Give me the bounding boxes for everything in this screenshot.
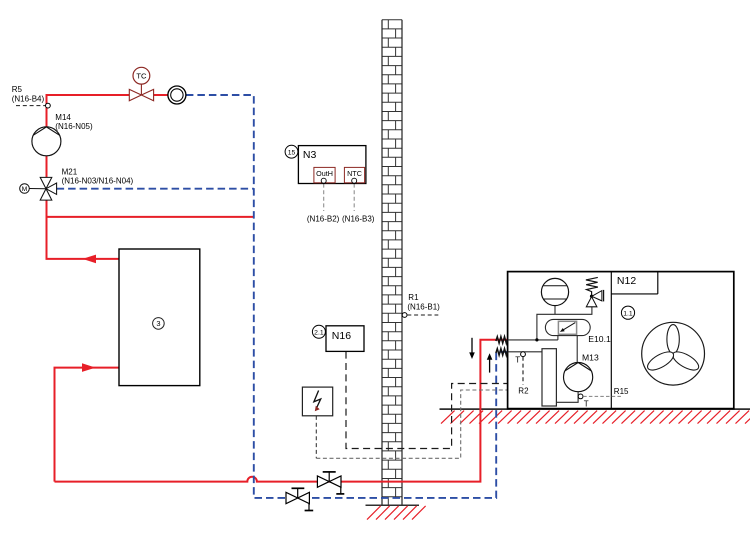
- terminal circle (N16-B2): [321, 178, 326, 183]
- pressure gauge (double circle): [168, 86, 186, 104]
- 3-way mixing valve M21: [40, 177, 56, 200]
- internal pipes of outdoor unit: [508, 306, 592, 403]
- expansion vessel: [541, 278, 568, 305]
- sensor T/R15 below pump: [578, 394, 583, 399]
- divider line: [610, 272, 612, 409]
- wire: N3 sensor drop lines (gray dash): [324, 184, 355, 211]
- svg-text:(N16-B2): (N16-B2): [307, 214, 340, 223]
- svg-text:(N16-B4): (N16-B4): [12, 95, 45, 104]
- wire: blue dashed pipe from gauge, right riser, bottom run into outdoor unit: [57, 95, 508, 498]
- shutoff valve on red bottom pipe: [317, 476, 341, 487]
- pipe junction node: [535, 338, 538, 341]
- position circle 1.1: [621, 306, 634, 319]
- svg-text:N12: N12: [617, 275, 636, 287]
- svg-text:NTC: NTC: [347, 169, 362, 178]
- wall-pass zigzag on blue pipe: [496, 349, 508, 356]
- sensor R5 connection circle on riser: [46, 103, 51, 108]
- position circle 2.1: [312, 325, 325, 338]
- wire: N16 control line to outdoor unit (black long dash): [346, 352, 508, 449]
- svg-text:R15: R15: [614, 387, 629, 396]
- sensor T/R2: [521, 352, 526, 357]
- terminal NTC: [344, 167, 364, 182]
- terminal circle (N16-B3): [352, 178, 357, 183]
- svg-text:M13: M13: [582, 352, 599, 362]
- svg-text:T: T: [584, 400, 589, 409]
- controller N16: [326, 326, 364, 352]
- svg-text:2.1: 2.1: [314, 329, 324, 336]
- svg-text:M: M: [22, 186, 28, 193]
- terminal OutH: [314, 167, 335, 182]
- svg-text:M14: M14: [55, 113, 71, 122]
- svg-text:R1: R1: [408, 293, 419, 302]
- svg-text:15: 15: [288, 149, 296, 156]
- svg-text:(N16-N03/N16-N04): (N16-N03/N16-N04): [62, 177, 134, 186]
- heat exchanger (tall rect): [542, 349, 556, 406]
- svg-text:N3: N3: [303, 149, 317, 161]
- flow direction arrow up: [489, 359, 491, 373]
- svg-text:R2: R2: [518, 387, 529, 396]
- wire: red return pipe from building box down: [55, 368, 120, 482]
- svg-text:1.1: 1.1: [623, 310, 633, 317]
- flow direction arrow down: [471, 338, 473, 353]
- pump M13: [564, 363, 593, 392]
- shutoff valve on blue bottom pipe: [286, 492, 309, 503]
- wire: R5 sensor dashed lead: [16, 105, 46, 107]
- svg-text:N16: N16: [332, 330, 351, 342]
- flow arrow toward building (bottom, pointing right): [82, 363, 96, 372]
- svg-text:M21: M21: [62, 167, 78, 176]
- pump M14: [32, 127, 61, 156]
- svg-text:(N16-B3): (N16-B3): [342, 214, 375, 223]
- outdoor unit box N12: [508, 272, 734, 409]
- fan: [642, 322, 705, 385]
- svg-text:OutH: OutH: [316, 169, 333, 178]
- svg-text:(N16-B1): (N16-B1): [407, 302, 440, 311]
- wire: red bottom run with bridge, up to outdoor unit: [55, 340, 508, 482]
- svg-text:R5: R5: [12, 85, 23, 94]
- ground line right (grade under outdoor unit): [440, 408, 750, 410]
- building / heating circuit box (3): [119, 249, 200, 386]
- flow arrow into building (top, pointing left): [83, 255, 97, 264]
- motor M of valve M21: [29, 188, 46, 190]
- svg-text:3: 3: [156, 319, 160, 328]
- wall-pass zigzag on red pipe: [496, 337, 508, 344]
- svg-text:(N16-N05): (N16-N05): [55, 122, 93, 131]
- svg-text:T: T: [515, 356, 520, 365]
- chimney wall (brick column): [382, 20, 402, 506]
- wire: power supply line from lightning box to outdoor unit (gray dash): [315, 416, 317, 458]
- svg-text:E10.1: E10.1: [588, 334, 611, 344]
- ground hatch right: [441, 411, 750, 424]
- control module N3: [298, 146, 366, 184]
- N12 label box: [611, 293, 658, 295]
- expansion valve E10.1 (stadium): [545, 319, 590, 335]
- wire: red pipe mid horizontal to blue riser: [47, 216, 254, 218]
- position circle 15: [285, 145, 298, 158]
- mains power box (lightning symbol): [302, 387, 332, 416]
- ground hatch chimney foot: [367, 506, 426, 520]
- sensor R1 (N16-B1) on chimney: [402, 313, 407, 318]
- ground line at chimney foot: [366, 504, 420, 506]
- wire: blue dashed branch to mixing valve M21: [57, 188, 254, 190]
- wire: R1 sensor dashed lead: [407, 314, 438, 316]
- thermostatic valve TC: [129, 67, 153, 100]
- svg-text:TC: TC: [136, 72, 147, 81]
- safety valve with spring: [586, 277, 598, 296]
- wire: red flow pipe, top-left riser and TC branch: [47, 95, 508, 482]
